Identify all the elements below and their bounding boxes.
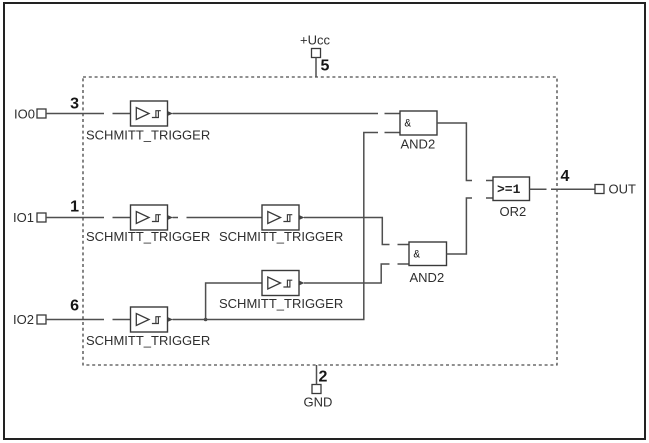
power +Ucc <box>300 33 330 58</box>
svg-text:AND2: AND2 <box>410 270 445 285</box>
schmitt trigger U3 <box>262 205 305 230</box>
pin IO2 terminal <box>37 315 46 324</box>
schmitt trigger U4 <box>262 271 305 296</box>
pin OUT terminal <box>595 185 604 194</box>
ground GND <box>304 385 333 410</box>
svg-text:2: 2 <box>319 369 328 386</box>
svg-text:SCHMITT_TRIGGER: SCHMITT_TRIGGER <box>86 333 210 348</box>
svg-text:IO0: IO0 <box>14 107 35 122</box>
svg-text:OUT: OUT <box>609 182 637 197</box>
IC boundary (dashed box) <box>83 77 557 365</box>
svg-text:SCHMITT_TRIGGER: SCHMITT_TRIGGER <box>86 127 210 142</box>
wire IO1 to U2 <box>46 217 131 219</box>
wire U1 to AND2 A <box>173 113 401 115</box>
schmitt trigger U2 <box>131 205 174 230</box>
wire junction to U4 <box>206 283 262 320</box>
svg-text:AND2: AND2 <box>401 137 436 152</box>
schmitt trigger U1 <box>131 101 174 126</box>
svg-text:SCHMITT_TRIGGER: SCHMITT_TRIGGER <box>219 229 343 244</box>
wire IO2 to U5 <box>46 319 131 321</box>
svg-text:SCHMITT_TRIGGER: SCHMITT_TRIGGER <box>219 296 343 311</box>
svg-text:GND: GND <box>304 395 333 410</box>
AND gate U6 (AND2 top) <box>400 111 437 135</box>
AND gate U7 (AND2 bottom) <box>409 242 447 266</box>
wire IO0 to U1 <box>46 113 131 115</box>
wire Ucc to boundary <box>315 58 317 78</box>
svg-text:IO2: IO2 <box>13 312 34 327</box>
schmitt trigger U5 <box>131 307 174 332</box>
wire boundary to GND <box>316 365 318 385</box>
wire U2 to U3 <box>173 217 263 219</box>
svg-text:SCHMITT_TRIGGER: SCHMITT_TRIGGER <box>86 229 210 244</box>
svg-text:1: 1 <box>70 199 79 216</box>
wire U3 to AND2B input A <box>304 218 409 245</box>
pin IO0 terminal <box>37 109 46 118</box>
svg-text:3: 3 <box>70 96 79 113</box>
svg-text:6: 6 <box>70 298 79 315</box>
svg-text:IO1: IO1 <box>13 210 34 225</box>
svg-text:+Ucc: +Ucc <box>300 33 330 48</box>
OR gate U8 (OR2) <box>493 177 530 201</box>
svg-text:4: 4 <box>561 168 570 185</box>
wire AND2 bottom to OR2 input B <box>447 198 494 254</box>
wire AND2 top to OR2 input A <box>437 123 493 181</box>
wire U5 to AND2 input B (corner up) <box>173 133 401 320</box>
pin IO1 terminal <box>37 213 46 222</box>
svg-text:&: & <box>405 118 412 130</box>
junction node <box>204 318 208 322</box>
wire OR2 to OUT pin <box>530 188 596 190</box>
svg-text:5: 5 <box>321 58 330 75</box>
svg-text:>=1: >=1 <box>497 182 521 197</box>
svg-text:&: & <box>414 249 421 261</box>
svg-text:OR2: OR2 <box>500 204 527 219</box>
wire U4 to AND2B input B <box>304 264 409 283</box>
